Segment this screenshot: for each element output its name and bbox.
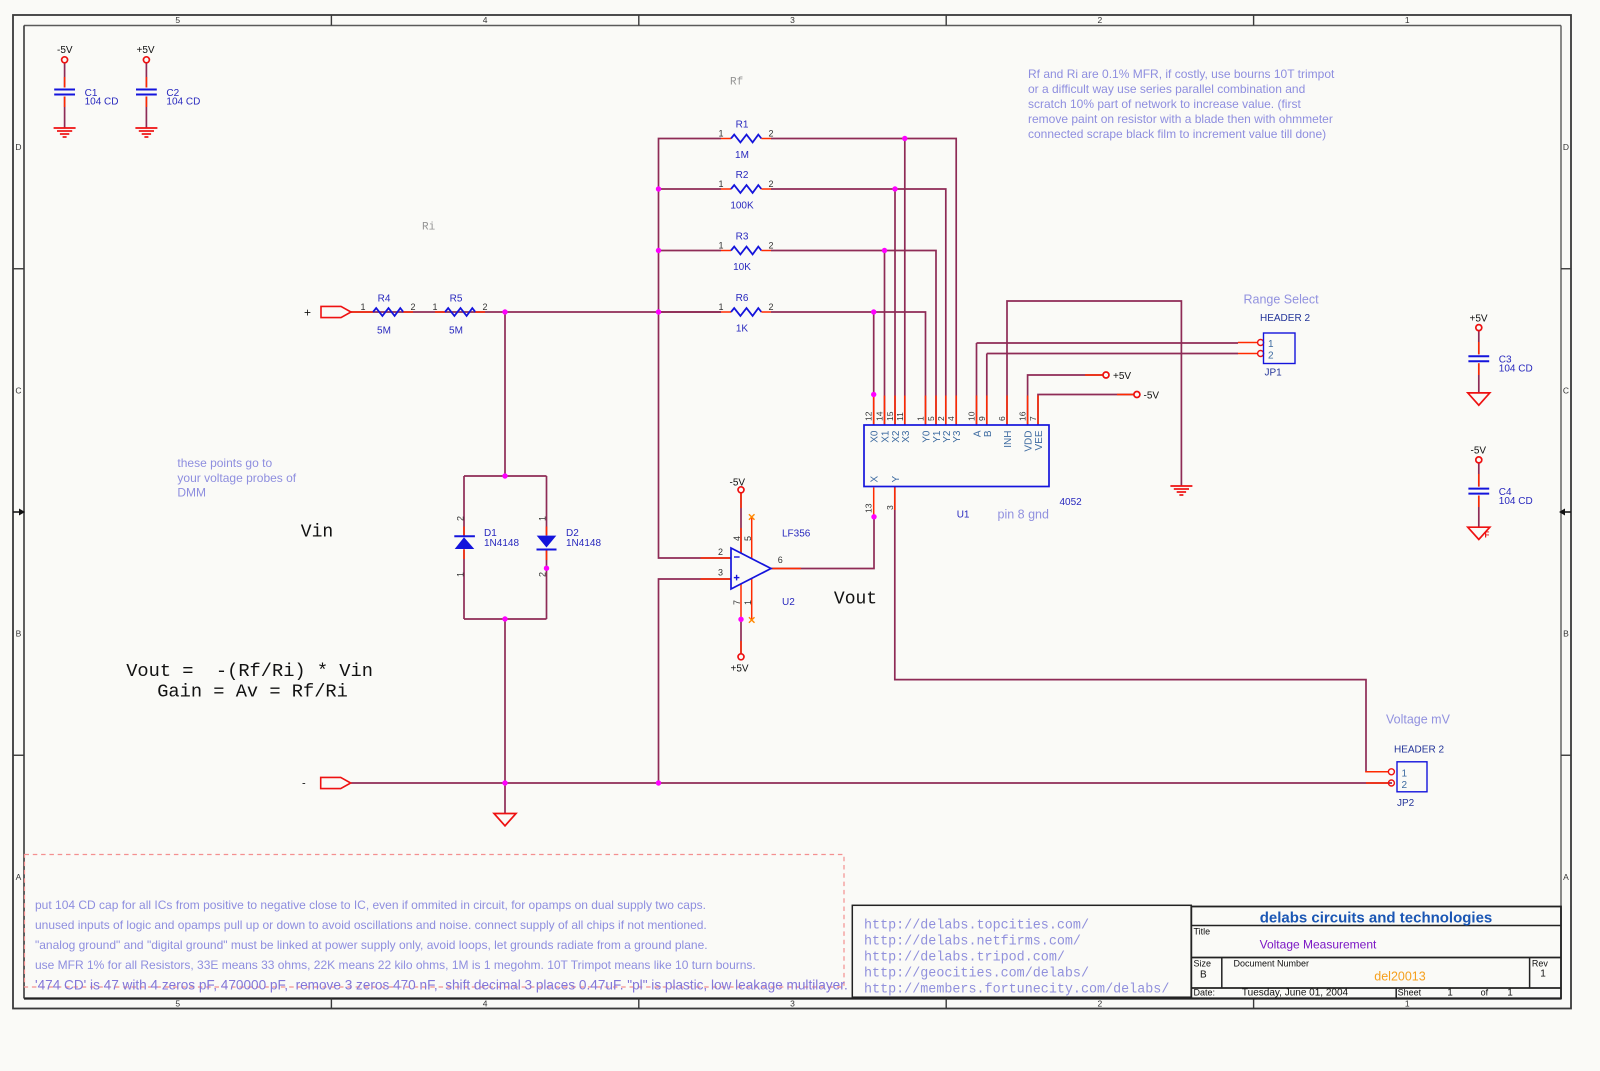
svg-text:7: 7 xyxy=(1028,416,1038,421)
svg-text:7: 7 xyxy=(732,600,742,605)
svg-text:X: X xyxy=(870,476,881,483)
svg-text:1M: 1M xyxy=(735,150,749,161)
svg-text:1: 1 xyxy=(1405,15,1410,25)
svg-text:R5: R5 xyxy=(450,294,463,305)
svg-text:3: 3 xyxy=(790,15,795,25)
svg-text:104 CD: 104 CD xyxy=(1499,496,1533,507)
svg-text:Y0: Y0 xyxy=(922,430,933,443)
svg-text:http://delabs.netfirms.com/: http://delabs.netfirms.com/ xyxy=(864,934,1081,949)
svg-text:HEADER 2: HEADER 2 xyxy=(1260,313,1310,324)
svg-text:5M: 5M xyxy=(449,326,463,337)
svg-text:Voltage mV: Voltage mV xyxy=(1386,713,1451,727)
svg-text:4: 4 xyxy=(732,536,742,541)
svg-text:1N4148: 1N4148 xyxy=(566,538,601,549)
svg-text:X0: X0 xyxy=(870,430,881,443)
svg-text:1: 1 xyxy=(1405,998,1410,1008)
svg-text:100K: 100K xyxy=(730,201,754,212)
svg-text:4052: 4052 xyxy=(1060,497,1083,508)
svg-text:VEE: VEE xyxy=(1034,430,1045,450)
svg-text:14: 14 xyxy=(875,411,885,421)
svg-text:Ri: Ri xyxy=(422,222,436,234)
svg-text:2: 2 xyxy=(482,302,487,312)
svg-text:2: 2 xyxy=(768,129,773,139)
svg-text:C: C xyxy=(1563,385,1569,395)
svg-text:2: 2 xyxy=(718,547,723,557)
svg-text:Date:: Date: xyxy=(1194,988,1216,998)
svg-text:1: 1 xyxy=(538,516,548,521)
svg-text:B: B xyxy=(983,430,994,437)
svg-text:Gain = Av = Rf/Ri: Gain = Av = Rf/Ri xyxy=(157,681,348,703)
svg-text:Y: Y xyxy=(891,476,902,483)
svg-text:Document Number: Document Number xyxy=(1234,959,1310,969)
svg-text:or a difficult way use series: or a difficult way use series parallel c… xyxy=(1028,82,1305,96)
svg-text:delabs circuits and technologi: delabs circuits and technologies xyxy=(1260,910,1493,927)
svg-text:http://delabs.topcities.com/: http://delabs.topcities.com/ xyxy=(864,918,1089,933)
svg-text:1: 1 xyxy=(718,302,723,312)
svg-text:these points go to: these points go to xyxy=(177,456,272,470)
svg-text:1: 1 xyxy=(718,129,723,139)
svg-text:LF356: LF356 xyxy=(782,529,811,540)
svg-text:2: 2 xyxy=(1098,15,1103,25)
svg-text:1: 1 xyxy=(718,241,723,251)
svg-text:1: 1 xyxy=(456,572,466,577)
svg-text:15: 15 xyxy=(885,411,895,421)
svg-text:Tuesday, June 01, 2004: Tuesday, June 01, 2004 xyxy=(1242,988,1349,999)
svg-text:4: 4 xyxy=(483,15,488,25)
svg-text:2: 2 xyxy=(1402,780,1408,791)
svg-text:U2: U2 xyxy=(782,597,795,608)
svg-text:104 CD: 104 CD xyxy=(1499,364,1533,375)
svg-text:'474 CD' is 47 with 4 zeros pF: '474 CD' is 47 with 4 zeros pF, 470000 p… xyxy=(35,977,848,992)
svg-text:1: 1 xyxy=(360,302,365,312)
svg-text:1: 1 xyxy=(1507,988,1513,999)
svg-text:Rf and Ri are 0.1% MFR, if cos: Rf and Ri are 0.1% MFR, if costly, use b… xyxy=(1028,67,1335,81)
svg-text:13: 13 xyxy=(864,503,874,513)
svg-text:+5V: +5V xyxy=(1113,371,1131,382)
svg-text:1: 1 xyxy=(432,302,437,312)
svg-text:JP2: JP2 xyxy=(1397,798,1415,809)
svg-text:5: 5 xyxy=(175,998,180,1008)
svg-text:Range Select: Range Select xyxy=(1244,293,1320,307)
svg-text:Title: Title xyxy=(1194,927,1211,937)
svg-text:A: A xyxy=(1563,872,1569,882)
svg-text:12: 12 xyxy=(864,411,874,421)
svg-text:2: 2 xyxy=(410,302,415,312)
svg-text:use MFR 1% for all Resistors,: use MFR 1% for all Resistors, 33E means … xyxy=(35,958,756,972)
svg-text:3: 3 xyxy=(718,568,723,578)
svg-text:2: 2 xyxy=(936,416,946,421)
svg-text:connected scrape black film to: connected scrape black film to increment… xyxy=(1028,127,1326,141)
svg-text:6: 6 xyxy=(778,555,783,565)
svg-text:1: 1 xyxy=(718,179,723,189)
svg-text:VDD: VDD xyxy=(1024,431,1035,452)
svg-text:INH: INH xyxy=(1003,431,1014,448)
svg-text:JP1: JP1 xyxy=(1265,368,1283,379)
svg-text:Sheet: Sheet xyxy=(1398,988,1422,998)
svg-text:C: C xyxy=(15,385,21,395)
svg-text:your voltage probes of: your voltage probes of xyxy=(177,471,296,485)
svg-text:D: D xyxy=(15,142,21,152)
svg-text:R4: R4 xyxy=(378,294,391,305)
svg-text:4: 4 xyxy=(946,416,956,421)
svg-text:5: 5 xyxy=(743,536,753,541)
svg-text:10: 10 xyxy=(967,411,977,421)
svg-text:3: 3 xyxy=(790,998,795,1008)
svg-text:U1: U1 xyxy=(957,509,970,520)
svg-text:scratch 10% part of network to: scratch 10% part of network to increase … xyxy=(1028,97,1301,111)
svg-text:F: F xyxy=(1485,531,1490,540)
svg-text:B: B xyxy=(1200,970,1207,981)
svg-text:X1: X1 xyxy=(881,430,892,443)
svg-text:6: 6 xyxy=(997,416,1007,421)
svg-text:-5V: -5V xyxy=(1471,446,1487,457)
svg-text:A: A xyxy=(16,872,22,882)
svg-text:Size: Size xyxy=(1194,959,1212,969)
svg-text:104 CD: 104 CD xyxy=(85,97,119,108)
svg-text:+5V: +5V xyxy=(731,664,749,675)
svg-text:1: 1 xyxy=(1540,969,1546,980)
svg-text:-5V: -5V xyxy=(1144,391,1160,402)
svg-text:1: 1 xyxy=(1268,339,1274,350)
svg-text:+: + xyxy=(304,306,311,320)
svg-text:11: 11 xyxy=(895,412,905,421)
svg-text:1: 1 xyxy=(916,416,926,421)
svg-text:del20013: del20013 xyxy=(1374,970,1425,984)
svg-text:104 CD: 104 CD xyxy=(166,97,200,108)
svg-text:-5V: -5V xyxy=(730,478,746,489)
svg-text:9: 9 xyxy=(977,416,987,421)
svg-text:16: 16 xyxy=(1018,411,1028,421)
svg-text:-: - xyxy=(302,778,306,790)
svg-text:1K: 1K xyxy=(736,324,749,335)
svg-text:http://geocities.com/delabs/: http://geocities.com/delabs/ xyxy=(864,966,1089,981)
svg-text:Voltage Measurement: Voltage Measurement xyxy=(1260,938,1377,952)
svg-text:-5V: -5V xyxy=(57,45,73,56)
svg-text:http://delabs.tripod.com/: http://delabs.tripod.com/ xyxy=(864,950,1065,965)
svg-text:Vin: Vin xyxy=(301,523,333,543)
svg-text:B: B xyxy=(1563,629,1569,639)
svg-text:1: 1 xyxy=(1402,768,1408,779)
svg-text:of: of xyxy=(1481,988,1489,998)
svg-text:R6: R6 xyxy=(736,293,749,304)
svg-text:R3: R3 xyxy=(736,232,749,243)
svg-text:2: 2 xyxy=(1268,350,1274,361)
svg-text:1N4148: 1N4148 xyxy=(484,538,519,549)
svg-text:DMM: DMM xyxy=(177,486,206,500)
svg-text:+5V: +5V xyxy=(1470,314,1488,325)
svg-text:Rev: Rev xyxy=(1532,959,1549,969)
svg-text:1: 1 xyxy=(743,600,753,605)
svg-text:5: 5 xyxy=(926,416,936,421)
svg-text:R2: R2 xyxy=(736,170,749,181)
svg-text:Y3: Y3 xyxy=(952,430,963,443)
svg-text:X3: X3 xyxy=(901,430,912,443)
svg-text:"analog ground" and "digital g: "analog ground" and "digital ground" mus… xyxy=(35,938,708,952)
svg-text:Y2: Y2 xyxy=(942,430,953,443)
svg-text:D: D xyxy=(1563,142,1569,152)
svg-text:4: 4 xyxy=(483,998,488,1008)
svg-text:http://members.fortunecity.com: http://members.fortunecity.com/delabs/ xyxy=(864,982,1169,997)
svg-text:2: 2 xyxy=(538,572,548,577)
svg-text:remove paint on resistor with: remove paint on resistor with a blade th… xyxy=(1028,112,1333,126)
svg-text:Vout = -(Rf/Ri) * Vin: Vout = -(Rf/Ri) * Vin xyxy=(126,660,373,682)
svg-text:pin 8 gnd: pin 8 gnd xyxy=(998,508,1049,522)
svg-text:2: 2 xyxy=(768,241,773,251)
svg-text:Vout: Vout xyxy=(834,590,877,610)
svg-text:3: 3 xyxy=(885,505,895,510)
svg-text:R1: R1 xyxy=(736,120,749,131)
svg-text:Rf: Rf xyxy=(730,77,743,89)
svg-text:unused inputs of logic and opa: unused inputs of logic and opamps pull u… xyxy=(35,918,707,932)
svg-text:10K: 10K xyxy=(733,262,751,273)
svg-text:2: 2 xyxy=(1098,998,1103,1008)
svg-text:1: 1 xyxy=(1447,988,1453,999)
svg-text:+5V: +5V xyxy=(137,45,155,56)
svg-text:5M: 5M xyxy=(377,326,391,337)
svg-text:put 104 CD cap for all ICs fro: put 104 CD cap for all ICs from positive… xyxy=(35,898,706,912)
svg-text:B: B xyxy=(16,629,22,639)
svg-text:2: 2 xyxy=(768,302,773,312)
svg-text:2: 2 xyxy=(768,179,773,189)
svg-text:5: 5 xyxy=(175,15,180,25)
svg-text:2: 2 xyxy=(456,516,466,521)
svg-text:HEADER 2: HEADER 2 xyxy=(1394,745,1444,756)
